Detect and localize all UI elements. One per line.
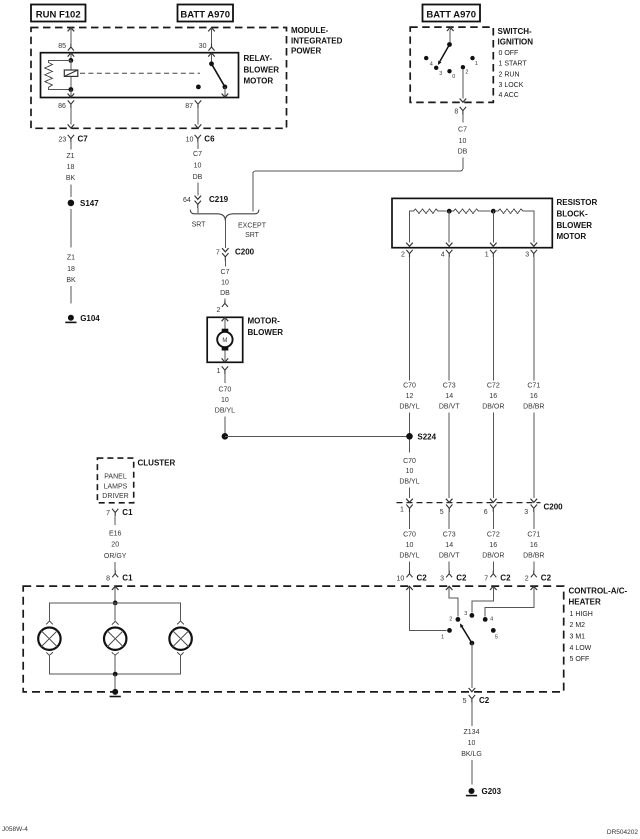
pin 85 label and relay entry arrow bbox=[58, 43, 74, 60]
svg-text:DB/BR: DB/BR bbox=[523, 553, 544, 560]
svg-text:14: 14 bbox=[445, 393, 453, 400]
pin 1 connector below resistor block bbox=[485, 250, 497, 258]
wire C71 16 DB/BR to blower switch bbox=[523, 512, 544, 570]
svg-text:C7: C7 bbox=[193, 151, 202, 158]
svg-text:C1: C1 bbox=[122, 508, 133, 517]
wire Z1 18 BK lower bbox=[66, 209, 76, 304]
wire C72 16 DB/OR to blower switch bbox=[482, 512, 504, 570]
svg-text:1 HIGH: 1 HIGH bbox=[570, 611, 593, 618]
C200 pin 1 bbox=[400, 499, 413, 514]
footer sheet number J058W-4 bbox=[2, 826, 28, 833]
motor armature circle M bbox=[217, 332, 232, 347]
svg-text:DB: DB bbox=[458, 149, 468, 156]
svg-text:7: 7 bbox=[216, 249, 220, 256]
svg-text:DB/YL: DB/YL bbox=[215, 408, 235, 415]
svg-text:2 RUN: 2 RUN bbox=[499, 72, 520, 79]
svg-text:2: 2 bbox=[216, 307, 220, 314]
svg-text:DB/OR: DB/OR bbox=[482, 404, 504, 411]
svg-text:Z1: Z1 bbox=[66, 153, 74, 160]
svg-text:DB/OR: DB/OR bbox=[482, 553, 504, 560]
svg-text:C70: C70 bbox=[218, 387, 231, 394]
svg-text:2: 2 bbox=[449, 617, 452, 623]
wire C7 10 DB to motor bbox=[220, 261, 230, 300]
svg-text:10: 10 bbox=[459, 138, 467, 145]
svg-text:BLOWER: BLOWER bbox=[244, 65, 280, 74]
svg-text:DB/BR: DB/BR bbox=[523, 404, 544, 411]
svg-text:7: 7 bbox=[484, 576, 488, 583]
ground G104 bbox=[65, 314, 100, 323]
svg-text:CONTROL-A/C-: CONTROL-A/C- bbox=[569, 586, 628, 595]
svg-text:4 LOW: 4 LOW bbox=[570, 645, 592, 652]
svg-text:5 OFF: 5 OFF bbox=[570, 656, 590, 663]
ignition legend bbox=[499, 50, 528, 99]
svg-text:C7: C7 bbox=[78, 135, 89, 144]
svg-text:DR504202: DR504202 bbox=[607, 829, 638, 836]
svg-text:7: 7 bbox=[106, 510, 110, 517]
wire E16 20 OR/GY bbox=[104, 516, 127, 570]
svg-text:10: 10 bbox=[221, 280, 229, 287]
wire blower switch common out bbox=[469, 643, 476, 692]
svg-text:20: 20 bbox=[111, 542, 119, 549]
wire coil vertical bbox=[70, 60, 72, 89]
node coil top junction bbox=[69, 58, 74, 63]
svg-text:BK: BK bbox=[66, 277, 76, 284]
svg-text:C2: C2 bbox=[417, 574, 428, 583]
svg-text:C72: C72 bbox=[487, 532, 500, 539]
svg-text:16: 16 bbox=[489, 393, 497, 400]
svg-text:2 M2: 2 M2 bbox=[570, 622, 586, 629]
lamp 2 panel illumination bbox=[104, 621, 126, 658]
svg-text:HEATER: HEATER bbox=[569, 598, 602, 607]
node motor wire corner junction bbox=[222, 433, 229, 440]
svg-text:4: 4 bbox=[490, 617, 493, 623]
svg-text:1: 1 bbox=[216, 368, 220, 375]
svg-text:8: 8 bbox=[454, 109, 458, 116]
svg-text:BLOWER: BLOWER bbox=[248, 328, 284, 337]
svg-text:DB/VT: DB/VT bbox=[439, 553, 460, 560]
relay K1 RELAY-BLOWER MOTOR box bbox=[41, 53, 280, 98]
svg-text:16: 16 bbox=[489, 542, 497, 549]
svg-text:RUN F102: RUN F102 bbox=[36, 10, 81, 21]
cluster PANEL LAMPS DRIVER text bbox=[102, 474, 128, 501]
pin 2 connector below resistor block bbox=[401, 250, 413, 258]
node resistor tap M1 bbox=[491, 209, 496, 214]
relay coil box bbox=[64, 70, 78, 76]
node lamp return junction bbox=[113, 672, 118, 677]
svg-text:S224: S224 bbox=[417, 432, 436, 441]
svg-text:C73: C73 bbox=[443, 383, 456, 390]
pin 86 connector below relay bbox=[58, 100, 74, 128]
connector C2 pin 3 bbox=[440, 571, 467, 583]
svg-text:Z134: Z134 bbox=[464, 729, 480, 736]
pin 10 connector C6 below module bbox=[186, 135, 215, 144]
svg-text:MOTOR: MOTOR bbox=[557, 232, 587, 241]
wire coil to pin 86 exit arrow bbox=[68, 90, 75, 98]
svg-text:C200: C200 bbox=[544, 503, 564, 512]
module U2 CLUSTER dashed box bbox=[97, 458, 175, 503]
svg-text:MOTOR: MOTOR bbox=[244, 76, 274, 85]
ignition position contacts bbox=[424, 56, 478, 80]
svg-text:C200: C200 bbox=[235, 248, 255, 257]
svg-text:12: 12 bbox=[406, 393, 414, 400]
svg-text:1: 1 bbox=[485, 251, 489, 258]
wire C7 10 DB from relay pin 87 bbox=[193, 142, 203, 195]
control legend bbox=[570, 611, 593, 663]
connector C2 pin 2 bbox=[525, 571, 552, 583]
svg-text:IGNITION: IGNITION bbox=[498, 37, 534, 46]
wire BATT A970 into ignition switch bbox=[447, 27, 454, 43]
svg-text:RELAY-: RELAY- bbox=[244, 54, 273, 63]
lamp 1 panel illumination bbox=[38, 621, 60, 658]
switch S1 SWITCH-IGNITION dashed box bbox=[410, 27, 533, 102]
motor lower brush and exit arrow bbox=[222, 347, 229, 362]
svg-text:10: 10 bbox=[221, 397, 229, 404]
pin 8 connector C7 below ignition bbox=[454, 107, 466, 116]
svg-text:INTEGRATED: INTEGRATED bbox=[291, 36, 343, 45]
node lamp bus junction bbox=[113, 601, 118, 606]
resistor parallel with relay coil bbox=[45, 60, 71, 89]
svg-text:PANEL: PANEL bbox=[104, 474, 127, 481]
ignition switch arm bbox=[438, 45, 450, 66]
svg-text:1: 1 bbox=[400, 506, 404, 513]
blower switch wire 4 LOW bbox=[485, 586, 537, 616]
svg-text:1: 1 bbox=[475, 61, 478, 67]
svg-text:C219: C219 bbox=[209, 195, 229, 204]
relay contact arm bbox=[212, 64, 228, 90]
svg-text:C70: C70 bbox=[403, 458, 416, 465]
svg-text:16: 16 bbox=[530, 542, 538, 549]
svg-text:C2: C2 bbox=[500, 574, 511, 583]
svg-text:BATT A970: BATT A970 bbox=[180, 10, 230, 21]
node relay common contact bbox=[209, 61, 214, 66]
wire C1 pin 8 into control box bbox=[112, 586, 119, 603]
svg-text:2: 2 bbox=[465, 70, 468, 76]
fuse feed box RUN F102 bbox=[31, 5, 86, 22]
svg-text:5: 5 bbox=[495, 635, 498, 641]
svg-text:BLOCK-: BLOCK- bbox=[557, 210, 588, 219]
svg-text:S147: S147 bbox=[80, 199, 99, 208]
svg-text:DB/YL: DB/YL bbox=[399, 553, 419, 560]
wire C70 12 DB/YL resistor pin 2 bbox=[399, 257, 419, 433]
svg-text:0: 0 bbox=[452, 74, 455, 80]
svg-text:Z1: Z1 bbox=[67, 255, 75, 262]
svg-text:SRT: SRT bbox=[245, 232, 260, 239]
pin 1 connector below motor bbox=[216, 366, 228, 375]
svg-text:4 ACC: 4 ACC bbox=[499, 92, 519, 99]
svg-text:J058W-4: J058W-4 bbox=[2, 826, 28, 833]
blower switch wire 2 M2 bbox=[446, 586, 458, 616]
wire C72 16 DB/OR resistor pin 1 bbox=[482, 257, 504, 498]
svg-text:M: M bbox=[222, 338, 227, 344]
ground G203 bbox=[466, 787, 502, 796]
wire lamp bottom bus bbox=[49, 657, 180, 674]
wire C219 to brace bbox=[197, 208, 199, 213]
svg-text:85: 85 bbox=[58, 43, 66, 50]
svg-text:DB: DB bbox=[220, 290, 230, 297]
wire lamp top bus bbox=[49, 603, 180, 620]
wire ignition position 2 to pin 8 bbox=[460, 69, 467, 102]
svg-text:RESISTOR: RESISTOR bbox=[557, 198, 598, 207]
svg-text:10: 10 bbox=[186, 136, 194, 143]
svg-text:BK/LG: BK/LG bbox=[461, 751, 482, 758]
motor M1 MOTOR-BLOWER box bbox=[207, 316, 283, 362]
svg-text:3: 3 bbox=[524, 509, 528, 516]
brace SRT / EXCEPT SRT merge bbox=[190, 210, 266, 239]
svg-text:C70: C70 bbox=[403, 383, 416, 390]
wire pin 30 feed from BATT A970 into module bbox=[208, 28, 215, 51]
svg-text:C2: C2 bbox=[479, 696, 490, 705]
node resistor tap M2 bbox=[447, 209, 452, 214]
svg-text:C6: C6 bbox=[204, 135, 215, 144]
module U3 CONTROL-A/C-HEATER dashed box bbox=[23, 586, 627, 692]
wire Z1 18 BK upper bbox=[66, 142, 76, 197]
connector C2 pin 10 bbox=[397, 571, 428, 583]
pin 5 connector C2 below control box bbox=[463, 695, 490, 705]
svg-text:BLOWER: BLOWER bbox=[557, 221, 593, 230]
wire C7 10 DB from ignition bbox=[253, 115, 468, 212]
svg-text:3 LOCK: 3 LOCK bbox=[499, 82, 524, 89]
svg-text:16: 16 bbox=[530, 393, 538, 400]
svg-text:SWITCH-: SWITCH- bbox=[498, 27, 533, 36]
splice S147 bbox=[68, 199, 100, 208]
svg-text:C2: C2 bbox=[456, 574, 467, 583]
svg-text:0 OFF: 0 OFF bbox=[499, 50, 519, 57]
svg-text:BK: BK bbox=[66, 175, 76, 182]
wire C70 10 DB/YL from motor bbox=[215, 374, 235, 433]
pin 4 connector below resistor block bbox=[441, 250, 453, 258]
svg-text:CLUSTER: CLUSTER bbox=[138, 458, 176, 467]
svg-text:1 START: 1 START bbox=[499, 60, 528, 67]
wire splice run to S224 bbox=[225, 435, 410, 437]
C200 pin 5 bbox=[440, 499, 453, 516]
wire C73 14 DB/VT to blower switch bbox=[439, 512, 460, 570]
C200 pin 6 bbox=[484, 499, 497, 516]
pin 30 label and relay entry arrow bbox=[199, 43, 215, 64]
pin 7 connector C1 below cluster bbox=[106, 508, 133, 517]
svg-text:DB/VT: DB/VT bbox=[439, 404, 460, 411]
connector C2 pin 7 bbox=[484, 571, 511, 583]
svg-text:C1: C1 bbox=[122, 574, 133, 583]
svg-text:10: 10 bbox=[406, 542, 414, 549]
C200 pin 3 bbox=[524, 499, 537, 516]
wire C73 14 DB/VT resistor pin 4 bbox=[439, 257, 460, 498]
svg-text:C73: C73 bbox=[443, 532, 456, 539]
node relay NO terminal pin 87 bbox=[196, 85, 201, 90]
node coil bottom junction bbox=[69, 87, 74, 92]
resistor block internal drops with exit arrows bbox=[406, 211, 537, 246]
svg-text:G104: G104 bbox=[80, 314, 100, 323]
footer drawing number DR504202 bbox=[607, 829, 638, 836]
svg-text:EXCEPT: EXCEPT bbox=[238, 222, 267, 229]
dashed mechanical link bbox=[80, 72, 200, 74]
pin 23 connector C7 below module bbox=[59, 135, 89, 144]
svg-text:10: 10 bbox=[468, 740, 476, 747]
wire brace to C200 pin 7 bbox=[224, 221, 226, 248]
wire lamp return to case ground bbox=[114, 674, 116, 689]
svg-text:18: 18 bbox=[67, 164, 75, 171]
lamp 3 panel illumination bbox=[169, 621, 191, 658]
svg-text:30: 30 bbox=[199, 43, 207, 50]
svg-text:3: 3 bbox=[440, 576, 444, 583]
svg-text:6: 6 bbox=[484, 509, 488, 516]
svg-text:G203: G203 bbox=[482, 787, 502, 796]
blower switch arm bbox=[460, 623, 474, 645]
blower switch contacts 1-5 bbox=[441, 611, 498, 641]
in-line connector C200 pin 7 bbox=[216, 248, 255, 261]
svg-text:C71: C71 bbox=[527, 532, 540, 539]
case ground at control box bbox=[110, 689, 121, 697]
pin 8 connector C1 at control head bbox=[106, 571, 133, 583]
svg-text:10: 10 bbox=[397, 576, 405, 583]
svg-text:10: 10 bbox=[194, 163, 202, 170]
svg-text:C71: C71 bbox=[527, 383, 540, 390]
svg-text:2: 2 bbox=[525, 576, 529, 583]
svg-text:C2: C2 bbox=[541, 574, 552, 583]
svg-text:POWER: POWER bbox=[291, 47, 321, 56]
motor entry arrow and brush bbox=[222, 318, 229, 333]
svg-text:18: 18 bbox=[67, 266, 75, 273]
pin 3 connector below resistor block bbox=[525, 250, 537, 258]
svg-text:OR/GY: OR/GY bbox=[104, 553, 127, 560]
svg-text:64: 64 bbox=[183, 197, 191, 204]
svg-text:LAMPS: LAMPS bbox=[104, 483, 128, 490]
wire C70 10 DB/YL below S224 bbox=[399, 440, 419, 498]
svg-text:C70: C70 bbox=[403, 532, 416, 539]
svg-text:C72: C72 bbox=[487, 383, 500, 390]
svg-text:8: 8 bbox=[106, 576, 110, 583]
blower switch wire 3 M1 bbox=[472, 586, 497, 612]
svg-text:2: 2 bbox=[401, 251, 405, 258]
svg-text:MODULE-: MODULE- bbox=[291, 26, 329, 35]
svg-text:4: 4 bbox=[430, 61, 433, 67]
blower switch wire 1 HIGH bbox=[406, 586, 446, 630]
power feed box BATT A970 (left) bbox=[178, 5, 234, 22]
wire contact arm to bottom edge bbox=[222, 87, 229, 97]
power feed box BATT A970 (right) bbox=[423, 5, 481, 22]
svg-text:C7: C7 bbox=[458, 127, 467, 134]
svg-text:3: 3 bbox=[525, 251, 529, 258]
svg-text:E16: E16 bbox=[109, 531, 122, 538]
svg-text:SRT: SRT bbox=[192, 221, 207, 228]
wire Z134 10 BK/LG bbox=[461, 703, 482, 785]
svg-text:C7: C7 bbox=[221, 269, 230, 276]
wire C70 10 DB/YL to blower switch bbox=[399, 512, 419, 570]
svg-text:10: 10 bbox=[406, 468, 414, 475]
svg-text:5: 5 bbox=[440, 509, 444, 516]
svg-text:DRIVER: DRIVER bbox=[102, 493, 128, 500]
svg-text:3 M1: 3 M1 bbox=[570, 634, 586, 641]
pin 2 connector at motor bbox=[216, 300, 227, 314]
svg-text:1: 1 bbox=[441, 635, 444, 641]
resistor chain inside block bbox=[410, 209, 534, 214]
svg-text:DB/YL: DB/YL bbox=[399, 404, 419, 411]
wire C71 16 DB/BR resistor pin 3 bbox=[523, 257, 544, 498]
wire pin 85 feed from RUN F102 into module bbox=[68, 28, 75, 51]
svg-text:4: 4 bbox=[441, 251, 445, 258]
svg-text:14: 14 bbox=[445, 542, 453, 549]
svg-text:23: 23 bbox=[59, 136, 67, 143]
svg-text:DB: DB bbox=[193, 174, 203, 181]
svg-text:3: 3 bbox=[439, 71, 442, 77]
svg-text:5: 5 bbox=[463, 698, 467, 705]
resistor block R1 RESISTOR BLOCK-BLOWER MOTOR box bbox=[392, 198, 597, 248]
in-line connector C200 dashed line bbox=[397, 503, 564, 512]
svg-text:MOTOR-: MOTOR- bbox=[248, 316, 281, 325]
pin 87 connector below relay bbox=[185, 100, 201, 128]
svg-text:BATT A970: BATT A970 bbox=[426, 10, 476, 21]
splice S224 bbox=[406, 432, 436, 441]
node ignition arm pivot bbox=[447, 42, 452, 47]
svg-text:86: 86 bbox=[58, 103, 66, 110]
in-line connector C219 pin 64 bbox=[183, 195, 229, 208]
svg-text:3: 3 bbox=[464, 611, 467, 617]
module U1 MODULE-INTEGRATED POWER dashed outline bbox=[31, 26, 343, 128]
svg-text:87: 87 bbox=[185, 103, 193, 110]
svg-text:DB/YL: DB/YL bbox=[399, 479, 419, 486]
